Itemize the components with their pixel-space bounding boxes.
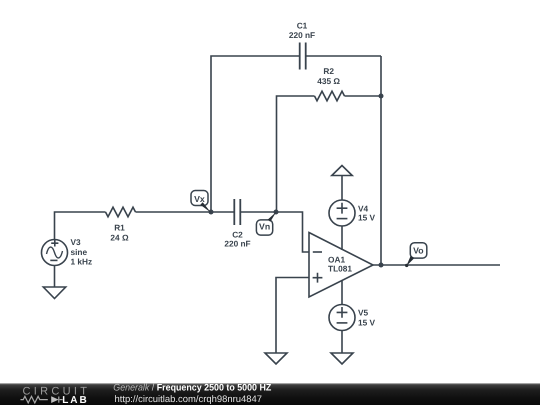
VCC arrow above V4 [332,166,352,176]
svg-text:TL081: TL081 [328,263,352,273]
wire: R1 to node Vx [136,211,212,213]
junction dot R2/feedback [379,94,384,99]
capacitor C2 [234,199,240,225]
logo waveform glyph [21,396,63,403]
svg-text:V5: V5 [358,308,369,318]
svg-text:LAB: LAB [62,395,89,405]
wire: R2 to feedback node [345,95,382,97]
wire: output [373,264,500,266]
svg-text:http://circuitlab.com/crqh98nr: http://circuitlab.com/crqh98nru4847 [115,394,263,405]
wire: Vn to op-amp inverting input [276,212,309,252]
node flag Vx [191,191,211,213]
resistor R1 [106,207,136,217]
wire: plus input to ground [276,278,309,354]
ground: non-inverting input [265,353,287,364]
V3 minus mark [50,259,57,261]
source V3 circle [42,240,68,266]
wire: Vn up to R2 left [277,96,315,212]
wire: op-amp bottom to V5 [341,281,343,305]
svg-text:Generalk / Frequency 2500 to 5: Generalk / Frequency 2500 to 5000 HZ [113,382,271,393]
wire: VCC to V4 [341,176,343,201]
V3 plus mark [51,240,58,247]
node flag Vo [405,243,427,267]
wire: V3 top lead to R1 [55,212,106,240]
op-amp minus input mark [313,251,322,253]
capacitor C1 [300,43,306,70]
V3 sine mark [47,247,63,258]
junction dot output [379,263,384,268]
wire: C2 right plate to node Vn [240,211,276,213]
junction dot Vn [274,210,279,215]
svg-text:220 nF: 220 nF [224,239,250,249]
ground: V3 [43,287,65,299]
resistor R2 [315,91,345,101]
wire: V5 to ground [341,331,343,354]
wire: feedback right vertical [380,56,382,265]
ground: V5 [331,353,353,364]
svg-text:15 V: 15 V [358,213,376,223]
svg-text:24 Ω: 24 Ω [110,233,129,243]
wire: V3 to ground [54,266,56,288]
svg-text:Vn: Vn [259,222,270,232]
svg-text:435 Ω: 435 Ω [317,76,340,86]
footer bar [0,383,540,405]
junction dot Vx [209,210,214,215]
source V4 [329,200,355,226]
svg-text:15 V: 15 V [358,317,376,327]
svg-text:sine: sine [71,247,88,257]
node flag Vn [256,212,276,235]
svg-text:1 kHz: 1 kHz [71,256,93,266]
wire: Vx to C2 left plate [211,211,234,213]
svg-text:R2: R2 [323,66,334,76]
svg-text:220 nF: 220 nF [289,30,315,40]
svg-text:Vx: Vx [194,194,205,204]
svg-text:Vo: Vo [413,246,423,256]
op-amp U1 triangle [309,233,373,298]
op-amp plus input mark [313,273,323,283]
wire: C1 to feedback node [306,55,381,57]
svg-text:R1: R1 [114,223,125,233]
wire: V4 to op-amp top [341,226,343,250]
svg-text:V3: V3 [71,237,82,247]
wire: C1 branch left vertical and top [211,56,300,212]
source V5 [329,305,355,331]
